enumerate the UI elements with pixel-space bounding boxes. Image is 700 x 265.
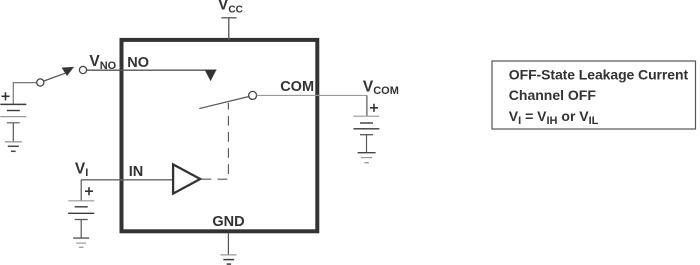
wire NO terminal into box xyxy=(87,69,217,71)
wire battery V2 to ground xyxy=(80,220,82,238)
battery V2 plates xyxy=(68,201,94,220)
ground below battery V3 xyxy=(358,153,376,163)
NO internal contact arrow xyxy=(205,70,217,81)
wire battery V3 to ground xyxy=(366,135,368,153)
DUT box U1 xyxy=(122,40,318,231)
svg-text:Channel OFF: Channel OFF xyxy=(509,87,597,103)
ground below battery V2 xyxy=(73,238,89,247)
battery V2 (VI source) plus sign xyxy=(85,187,93,195)
svg-text:VI: VI xyxy=(75,160,88,179)
switch S1 throw contact (NO terminal) xyxy=(79,66,86,73)
svg-text:VNO: VNO xyxy=(89,53,116,72)
svg-text:VCOM: VCOM xyxy=(363,78,399,97)
wire VI stub down xyxy=(80,180,82,201)
wire VI source to buffer input xyxy=(81,179,173,181)
wire battery V1 to ground xyxy=(12,123,14,142)
wire VCC stub xyxy=(228,18,230,40)
dashed control line from buffer to switch xyxy=(202,103,229,179)
note box xyxy=(492,61,696,129)
buffer U2 (input driver) xyxy=(173,164,200,193)
svg-text:COM: COM xyxy=(280,79,314,95)
battery V1 plates xyxy=(0,104,26,122)
wire from battery V1 to switch pole xyxy=(13,83,36,105)
battery V3 (VCOM source) plus sign xyxy=(370,104,378,112)
switch S1 arrowhead xyxy=(62,67,74,76)
svg-text:NO: NO xyxy=(127,55,149,71)
battery V3 plates xyxy=(353,116,379,135)
wire GND stub xyxy=(227,233,229,255)
battery V1 (VNO source) plus sign xyxy=(2,92,10,100)
internal switch blade xyxy=(199,97,249,109)
svg-text:IN: IN xyxy=(129,164,144,180)
svg-text:OFF-State Leakage Current: OFF-State Leakage Current xyxy=(509,67,689,83)
switch S1 pole contact xyxy=(37,79,44,86)
wire COM to VCOM source xyxy=(257,94,367,96)
ground below battery V1 xyxy=(5,142,22,152)
switch S1 blade xyxy=(44,73,66,81)
wire VCOM stub down xyxy=(366,95,368,116)
VCC terminal bar xyxy=(221,17,236,19)
ground below GND pin xyxy=(220,255,236,264)
svg-text:VCC: VCC xyxy=(218,0,243,16)
internal switch COM contact xyxy=(249,91,257,99)
svg-text:GND: GND xyxy=(212,214,244,230)
